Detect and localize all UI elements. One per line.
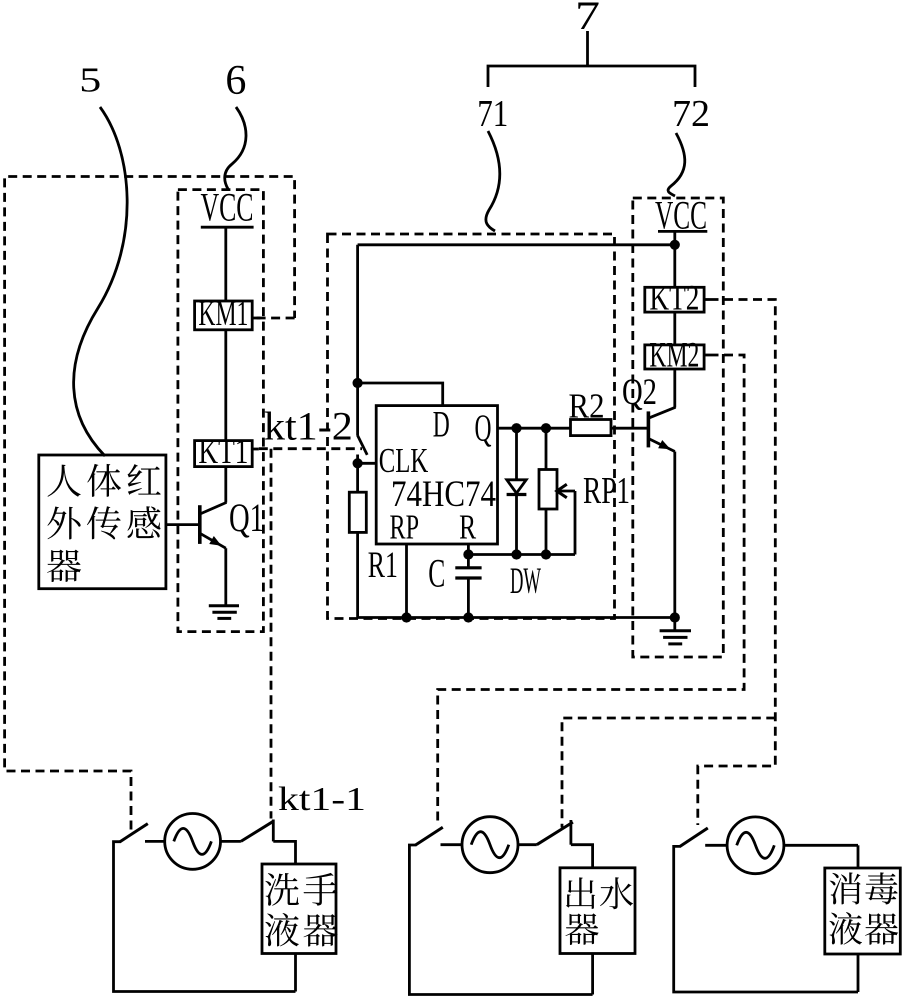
- load 2 text line1: [566, 877, 633, 909]
- svg-text:VCC: VCC: [201, 185, 254, 230]
- dashed enclosure 72 (output driver): [633, 198, 724, 657]
- Q1 base wire from sensor: [166, 523, 199, 526]
- wire to AC source 1: [145, 840, 165, 843]
- KM2 lead tick: [704, 354, 709, 357]
- VCC rail bar (branch 6): [201, 226, 254, 229]
- wire AC to load 3: [784, 844, 858, 847]
- wire to AC source 2: [441, 843, 463, 846]
- sensor text line3: [47, 550, 81, 582]
- svg-text:KM1: KM1: [198, 293, 248, 333]
- load 1 text line2: [265, 913, 337, 947]
- junction C bottom: [463, 612, 473, 622]
- junction D branch: [353, 378, 363, 388]
- leader line 71: [486, 131, 500, 231]
- AC source 2 sine: [471, 832, 509, 858]
- wire to D input: [358, 383, 443, 406]
- relay coil KM2: [645, 345, 704, 369]
- wire left vertical to CLK switch: [356, 245, 359, 436]
- svg-text:Q: Q: [475, 408, 492, 450]
- svg-text:KT2: KT2: [649, 277, 699, 317]
- VCC rail bar (branch 72): [658, 230, 707, 233]
- wire reset net horizontal: [468, 553, 575, 556]
- junction RP1 bottom: [541, 549, 551, 559]
- leader line 5: [74, 107, 128, 456]
- resistor R2: [571, 420, 612, 436]
- wire AC to switch kt1-1: [221, 840, 241, 843]
- wire RP1 to net: [545, 509, 548, 555]
- wire to AC source 3: [705, 844, 727, 847]
- AC source 1 sine: [174, 828, 212, 854]
- wire R1 to bottom rail: [356, 532, 359, 617]
- AC source 1 circle: [165, 814, 221, 870]
- svg-text:RP1: RP1: [583, 470, 630, 512]
- wire KM2 to Q2 collector: [673, 369, 676, 408]
- svg-text:71: 71: [477, 93, 508, 135]
- capacitor C: [455, 568, 481, 578]
- diode DW triangle: [507, 480, 526, 493]
- dashed link KT2 contacts: [698, 300, 776, 826]
- wire load 3 to bottom: [857, 954, 860, 992]
- IC U1 74HC74 body: [376, 406, 497, 544]
- wire CLK junction to R1: [356, 463, 359, 492]
- junction RP1 top: [541, 423, 551, 433]
- switch 3a blade: [680, 828, 708, 846]
- block: human infrared sensor: [39, 455, 166, 589]
- svg-text:Q2: Q2: [622, 372, 657, 413]
- switch kt1-1 blade: [241, 821, 274, 841]
- wire load 1 to bottom: [294, 954, 297, 992]
- label 7 stem: [586, 31, 589, 66]
- wire switch 2b to load 2: [571, 845, 593, 868]
- KT2 lead tick: [704, 298, 709, 301]
- junction DW bottom: [511, 549, 521, 559]
- Q2 emitter wire: [673, 452, 676, 618]
- junction top VCC: [670, 240, 680, 250]
- svg-text:KT1: KT1: [198, 431, 248, 471]
- wire VCC to KT2: [673, 231, 676, 287]
- KM1 lead tick: [252, 317, 260, 320]
- switch 2a blade: [416, 827, 443, 845]
- bracket 7: [488, 66, 695, 87]
- leader line 72: [668, 133, 685, 196]
- AC source 2 circle: [462, 817, 518, 873]
- svg-text:DW: DW: [510, 561, 541, 602]
- relay coil KT1: [195, 441, 253, 467]
- wire AC to switch 2b: [518, 843, 537, 846]
- switch 1a blade: [120, 824, 148, 842]
- svg-text:Q1: Q1: [229, 495, 264, 540]
- dashed link to kt1-1 switch: [270, 449, 273, 819]
- circuit 3 left wire: [674, 846, 858, 992]
- wire RP1 wiper riser: [574, 491, 577, 555]
- wire R pin down: [467, 544, 470, 568]
- wire Q to RP1: [545, 428, 548, 469]
- dashed enclosure 5: [5, 177, 295, 830]
- RP1 wiper arrow shaft: [558, 490, 576, 493]
- load box 2 (water dispenser): [560, 868, 635, 954]
- potentiometer RP1 body: [539, 470, 557, 510]
- switch kt1-2 blade: [358, 436, 368, 455]
- RP1 wiper arrowhead: [557, 484, 567, 498]
- ground (branch 6): [209, 606, 239, 619]
- dashed enclosure 6 (relay branch): [178, 190, 264, 632]
- wire Q output: [498, 427, 571, 430]
- wire DW to net: [515, 494, 518, 554]
- relay coil KT2: [645, 287, 704, 312]
- load 3 text line2: [829, 912, 898, 945]
- bottom rail wire: [358, 616, 675, 619]
- wire C to bottom rail: [467, 578, 470, 618]
- switch 2b terminal: [570, 820, 573, 845]
- sensor text line1: [47, 464, 160, 497]
- dashed link KT1 to kt1-2 switch: [259, 447, 362, 450]
- svg-text:5: 5: [79, 61, 101, 100]
- load 2 text line2: [565, 913, 598, 945]
- svg-text:kt1-1: kt1-1: [278, 781, 366, 818]
- wire VCC rail top: [358, 243, 675, 246]
- wire KT2 to KM2: [673, 312, 676, 345]
- svg-text:6: 6: [225, 58, 246, 104]
- svg-text:R1: R1: [368, 545, 398, 586]
- junction ground node: [670, 612, 680, 622]
- junction RP bottom: [401, 612, 411, 622]
- load box 3 (disinfectant): [825, 868, 901, 954]
- wire KM1 to KT1: [224, 330, 227, 441]
- wire kt1-1 to load 1: [273, 841, 295, 864]
- wire RP pin to bottom rail: [405, 544, 408, 618]
- svg-text:kt1-2: kt1-2: [264, 404, 353, 449]
- transistor Q2: [648, 407, 675, 451]
- svg-text:72: 72: [672, 93, 710, 135]
- wire Q to DW: [515, 428, 518, 480]
- dashed link KM2 contact: [438, 355, 744, 826]
- junction DW top: [511, 423, 521, 433]
- sensor text line2: [47, 506, 160, 539]
- svg-text:D: D: [433, 405, 450, 446]
- switch kt1-2 lower stub: [356, 455, 359, 464]
- load box 1 (hand sanitizer): [262, 864, 336, 954]
- svg-text:R2: R2: [569, 387, 605, 426]
- circuit 2 left wire: [409, 845, 592, 995]
- wire load 2 to bottom: [591, 954, 594, 995]
- diode DW cathode bar: [507, 493, 527, 496]
- svg-text:R: R: [459, 508, 476, 547]
- relay coil KM1: [195, 301, 253, 330]
- KT1 lead tick: [252, 448, 259, 451]
- wire load 3 right down: [857, 845, 860, 868]
- Q1 emitter wire: [224, 548, 227, 605]
- wire KT1 to Q1 collector: [224, 467, 227, 503]
- switch kt1-1 terminal: [272, 820, 275, 842]
- load 3 text line1: [830, 872, 898, 904]
- dashed link KT2 to water switch: [562, 718, 775, 828]
- junction R net: [463, 549, 473, 559]
- svg-text:C: C: [428, 550, 445, 595]
- junction CLK: [353, 458, 363, 468]
- svg-text:RP: RP: [390, 508, 420, 547]
- wire R2 to Q2 base: [611, 427, 648, 430]
- AC source 3 circle: [727, 817, 784, 874]
- dashed enclosure 71 (timing module): [328, 234, 615, 619]
- wire VCC to KM1: [224, 227, 227, 301]
- load 1 text line1: [265, 873, 337, 906]
- ground (branch 72): [660, 618, 691, 644]
- AC source 3 sine: [737, 832, 775, 858]
- svg-text:KM2: KM2: [649, 334, 699, 374]
- wire CLK input: [358, 462, 377, 465]
- circuit 1 left wire: [114, 842, 296, 992]
- resistor R1: [349, 492, 366, 532]
- transistor Q1: [200, 502, 227, 548]
- leader line 6: [225, 107, 246, 189]
- switch 2b blade: [537, 822, 573, 845]
